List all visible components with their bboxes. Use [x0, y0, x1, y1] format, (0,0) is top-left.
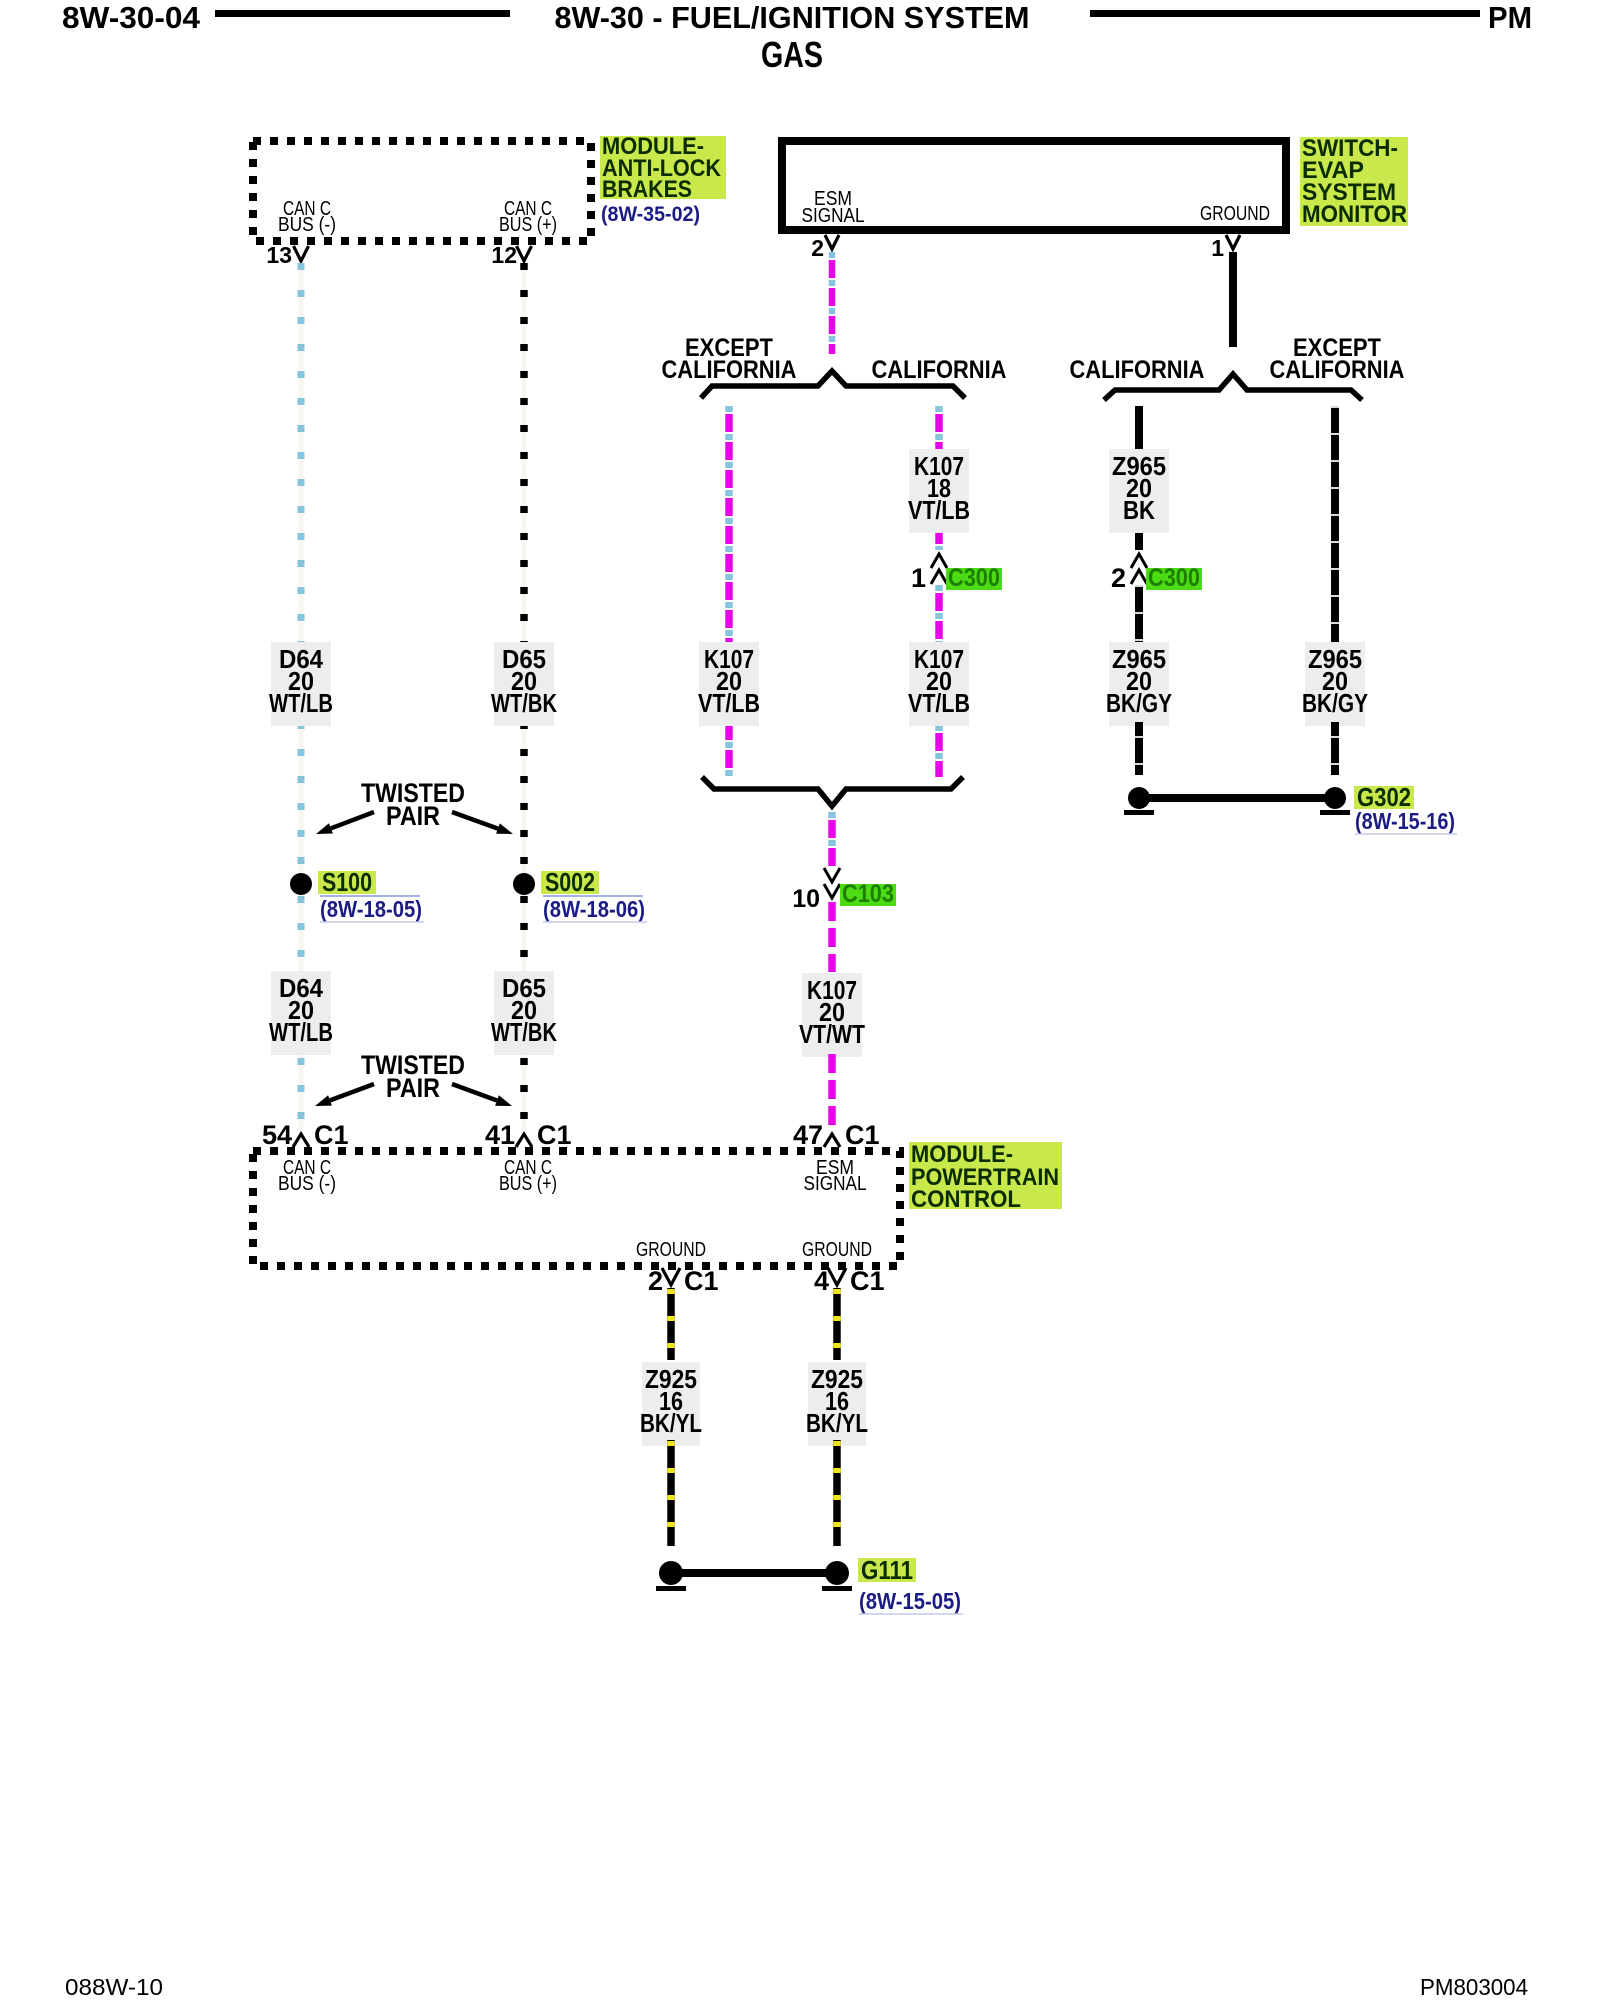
svg-text:GAS: GAS	[761, 34, 823, 75]
svg-text:2: 2	[1111, 563, 1126, 593]
svg-text:C300: C300	[1148, 564, 1200, 592]
svg-text:BK/GY: BK/GY	[1302, 688, 1368, 718]
svg-text:WT/LB: WT/LB	[269, 688, 333, 718]
svg-text:BUS (+): BUS (+)	[499, 214, 557, 236]
svg-text:S100: S100	[322, 867, 372, 897]
svg-text:SIGNAL: SIGNAL	[804, 1173, 867, 1195]
svg-text:12: 12	[491, 242, 517, 268]
svg-text:(8W-18-06): (8W-18-06)	[543, 896, 645, 922]
svg-text:CALIFORNIA: CALIFORNIA	[872, 356, 1007, 384]
svg-text:C1: C1	[314, 1120, 349, 1150]
svg-text:VT/LB: VT/LB	[698, 688, 760, 718]
svg-text:BK/YL: BK/YL	[640, 1408, 702, 1438]
svg-text:WT/LB: WT/LB	[269, 1017, 333, 1047]
svg-text:GROUND: GROUND	[636, 1239, 706, 1261]
svg-text:BUS (-): BUS (-)	[278, 214, 336, 236]
svg-text:G111: G111	[861, 1555, 913, 1585]
svg-text:C1: C1	[850, 1266, 885, 1296]
svg-text:S002: S002	[545, 867, 595, 897]
svg-text:PM803004: PM803004	[1420, 1974, 1528, 2000]
svg-text:CONTROL: CONTROL	[911, 1186, 1021, 1213]
svg-text:10: 10	[792, 885, 820, 913]
svg-text:2: 2	[648, 1266, 663, 1296]
svg-text:C300: C300	[948, 564, 1000, 592]
svg-text:SIGNAL: SIGNAL	[802, 205, 865, 227]
svg-text:CALIFORNIA: CALIFORNIA	[1070, 356, 1205, 384]
svg-text:BK: BK	[1123, 495, 1155, 525]
svg-text:PAIR: PAIR	[386, 801, 440, 831]
svg-text:(8W-15-16): (8W-15-16)	[1355, 808, 1455, 834]
svg-text:CALIFORNIA: CALIFORNIA	[1270, 356, 1405, 384]
svg-text:088W-10: 088W-10	[65, 1974, 163, 2000]
svg-text:PAIR: PAIR	[386, 1073, 440, 1103]
svg-text:BUS (+): BUS (+)	[499, 1173, 557, 1195]
svg-text:1: 1	[911, 563, 926, 593]
svg-text:MONITOR: MONITOR	[1302, 201, 1407, 228]
svg-text:BUS (-): BUS (-)	[278, 1173, 336, 1195]
svg-text:GROUND: GROUND	[802, 1239, 872, 1261]
svg-text:54: 54	[262, 1120, 292, 1150]
svg-text:CALIFORNIA: CALIFORNIA	[662, 356, 797, 384]
svg-text:BK/GY: BK/GY	[1106, 688, 1172, 718]
svg-text:BK/YL: BK/YL	[806, 1408, 868, 1438]
svg-text:VT/WT: VT/WT	[799, 1019, 865, 1049]
svg-text:4: 4	[814, 1266, 829, 1296]
svg-text:BRAKES: BRAKES	[602, 176, 692, 203]
svg-text:13: 13	[266, 242, 292, 268]
svg-text:8W-30-04: 8W-30-04	[62, 0, 201, 35]
svg-text:2: 2	[811, 235, 824, 261]
svg-text:(8W-18-05): (8W-18-05)	[320, 896, 422, 922]
svg-text:WT/BK: WT/BK	[491, 688, 557, 718]
svg-text:C1: C1	[684, 1266, 719, 1296]
svg-text:8W-30 - FUEL/IGNITION SYSTEM: 8W-30 - FUEL/IGNITION SYSTEM	[555, 0, 1030, 35]
svg-text:VT/LB: VT/LB	[908, 495, 970, 525]
svg-text:WT/BK: WT/BK	[491, 1017, 557, 1047]
svg-text:(8W-35-02): (8W-35-02)	[601, 203, 700, 226]
svg-text:C103: C103	[842, 880, 894, 908]
svg-text:GROUND: GROUND	[1200, 203, 1270, 225]
svg-text:47: 47	[793, 1120, 823, 1150]
svg-text:41: 41	[485, 1120, 515, 1150]
svg-text:C1: C1	[845, 1120, 880, 1150]
svg-text:1: 1	[1211, 235, 1224, 261]
svg-text:C1: C1	[537, 1120, 572, 1150]
svg-text:(8W-15-05): (8W-15-05)	[859, 1588, 961, 1614]
svg-text:VT/LB: VT/LB	[908, 688, 970, 718]
svg-text:PM: PM	[1488, 0, 1532, 35]
